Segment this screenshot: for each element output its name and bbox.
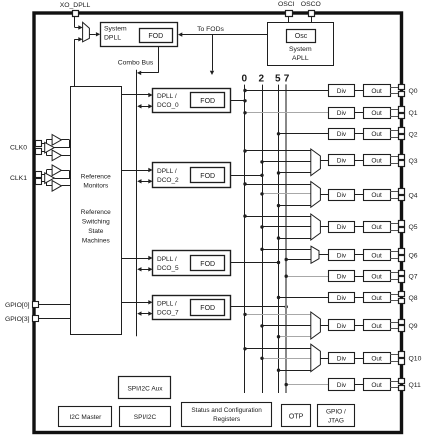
wire bus to Q4 mux input — [262, 193, 311, 195]
buffer CLK1 A — [52, 165, 61, 176]
pin Q9 square P — [399, 320, 405, 325]
pin Q6 square P — [399, 249, 405, 255]
wire bus to Q5 mux input — [279, 238, 311, 240]
svg-text:State: State — [88, 228, 104, 235]
svg-text:Q8: Q8 — [409, 295, 418, 302]
output driver Out Q7 — [364, 271, 391, 282]
wire bus line 7 — [285, 84, 287, 393]
divider Div Q11 — [329, 379, 355, 391]
FOD box in DPLL/DCO_7 — [191, 300, 225, 316]
divider Div Q5 — [329, 222, 355, 233]
wire To FODs down arrow — [212, 35, 214, 71]
divider Div Q8 — [329, 293, 355, 303]
wire bus to Q3 mux input — [262, 161, 311, 163]
wire Out to pins Q5 — [390, 223, 399, 225]
svg-text:Out: Out — [371, 158, 382, 165]
pin Q10 square N — [399, 359, 405, 365]
wire XO_DPLL to mux — [74, 17, 76, 28]
wire Q5 mux to divider — [320, 226, 328, 228]
pin OSCI square — [286, 11, 293, 17]
wire Div to Out Q10 — [355, 358, 363, 360]
svg-text:Q10: Q10 — [409, 356, 422, 363]
wire CLK1 pin feeds — [41, 174, 46, 176]
svg-text:APLL: APLL — [292, 55, 309, 62]
wire bus to Q9 mux input — [279, 336, 311, 338]
svg-text:Out: Out — [371, 88, 382, 95]
wire bus line 2 — [262, 85, 264, 393]
svg-text:Q4: Q4 — [409, 192, 418, 199]
svg-text:Div: Div — [337, 355, 347, 362]
pin Q2 square N — [399, 135, 405, 140]
output driver Out Q11 — [364, 379, 391, 391]
wire bus line 5 — [278, 85, 280, 393]
svg-text:Div: Div — [337, 274, 347, 281]
buffer CLK1 C — [52, 181, 61, 192]
pin CLK1 square P — [36, 172, 42, 178]
pin Q8 square N — [399, 299, 405, 304]
pin GPIO[3] square — [33, 316, 39, 322]
svg-text:Q11: Q11 — [409, 382, 422, 389]
block DPLL/DCO_5 — [153, 251, 231, 276]
block SPI/I2C — [120, 407, 171, 427]
wire Div to Out Q0 — [355, 90, 363, 92]
wire bus to Q1 divider — [245, 112, 328, 114]
wire Div to Out Q4 — [355, 194, 363, 196]
svg-text:DPLL /: DPLL / — [157, 93, 177, 100]
svg-text:5: 5 — [275, 74, 281, 85]
wire mux to System DPLL — [89, 34, 95, 36]
svg-text:GPIO[0]: GPIO[0] — [5, 302, 30, 309]
pin Q4 square N — [399, 196, 405, 201]
svg-text:SPI/I2C: SPI/I2C — [134, 414, 157, 421]
svg-text:Q7: Q7 — [409, 274, 418, 281]
wire bus to Q9 mux input — [245, 314, 311, 316]
svg-text:Q3: Q3 — [409, 158, 418, 165]
svg-text:7: 7 — [284, 74, 290, 85]
buffer CLK0 C — [52, 150, 61, 161]
wire bus to Q5 mux input — [245, 216, 311, 218]
buffer CLK0 B — [45, 142, 55, 153]
svg-text:System: System — [289, 46, 312, 53]
pin Q3 square P — [399, 155, 405, 160]
svg-text:GPIO /: GPIO / — [326, 408, 346, 415]
svg-text:JTAG: JTAG — [328, 417, 344, 424]
svg-text:DCO_5: DCO_5 — [157, 265, 179, 272]
wire bus to Q3 mux input — [279, 172, 311, 174]
pin XO_DPLL square — [73, 11, 79, 17]
block System APLL — [268, 23, 334, 66]
wire CLK1 buffers to monitors — [61, 170, 69, 172]
svg-text:Q5: Q5 — [409, 224, 418, 231]
svg-text:Div: Div — [337, 158, 347, 165]
svg-text:Out: Out — [371, 355, 382, 362]
pin Q8 square P — [399, 292, 405, 297]
wire Out to pins Q11 — [390, 381, 399, 383]
wire bus to Q4 mux input — [245, 184, 311, 186]
pin Q4 square P — [399, 189, 405, 195]
pin Q0 square P — [399, 85, 405, 90]
pin Q10 square P — [399, 352, 405, 358]
mux Q6 — [311, 246, 319, 263]
FOD box in DPLL/DCO_2 — [191, 168, 225, 183]
FOD box in DPLL/DCO_0 — [191, 93, 225, 108]
svg-text:Div: Div — [337, 131, 347, 138]
wire Div to Out Q3 — [355, 160, 363, 162]
wire Div to Out Q8 — [355, 297, 363, 299]
divider Div Q7 — [329, 271, 355, 282]
pin Q11 square N — [399, 386, 405, 391]
wire Out to pins Q6 — [390, 251, 399, 253]
wire bus to Q4 mux input — [279, 205, 311, 207]
output driver Out Q2 — [364, 129, 391, 140]
svg-text:FOD: FOD — [200, 261, 215, 268]
svg-text:DCO_7: DCO_7 — [157, 309, 179, 316]
output driver Out Q5 — [364, 222, 391, 233]
wire Q6 mux to divider — [319, 254, 328, 256]
block I2C Master — [59, 407, 112, 427]
wire DPLL/DCO_5 output — [230, 262, 278, 264]
pin Q9 square N — [399, 326, 405, 332]
block System DPLL — [101, 23, 178, 47]
svg-text:Registers: Registers — [213, 416, 240, 423]
wire bus to Q10 mux input — [245, 348, 311, 350]
divider Div Q4 — [329, 190, 355, 201]
divider Div Q10 — [329, 353, 355, 364]
divider Div Q6 — [329, 250, 355, 261]
mux Q5 — [311, 214, 321, 240]
block Reference Monitors — [71, 87, 122, 335]
pin Q5 square N — [399, 228, 405, 233]
svg-text:Out: Out — [371, 224, 382, 231]
svg-text:DPLL: DPLL — [104, 35, 121, 42]
wire Out to pins Q4 — [390, 191, 399, 193]
pin Q6 square N — [399, 256, 405, 262]
svg-text:Div: Div — [337, 295, 347, 302]
svg-text:DPLL /: DPLL / — [157, 300, 177, 307]
svg-text:Reference: Reference — [81, 209, 111, 216]
svg-text:Div: Div — [337, 110, 347, 117]
pin Q7 square P — [399, 271, 405, 276]
wire reference to mux — [74, 39, 76, 87]
wire Q9 mux to divider — [320, 325, 328, 327]
pin GPIO[0] square — [33, 302, 39, 308]
wire bus to Q10 mux input — [262, 358, 311, 360]
wire To FODs — [182, 34, 268, 36]
wire bus to Q2 divider — [279, 133, 329, 135]
svg-text:Out: Out — [371, 252, 382, 259]
svg-text:OTP: OTP — [289, 412, 304, 421]
svg-text:DCO_2: DCO_2 — [157, 177, 179, 184]
svg-text:DPLL /: DPLL / — [157, 168, 177, 175]
svg-text:Out: Out — [371, 295, 382, 302]
wire Div to Out Q7 — [355, 276, 363, 278]
wire OSCO stub — [311, 17, 313, 23]
wire bus to Q10 mux input — [279, 370, 311, 372]
Osc box — [287, 30, 316, 43]
buffer CLK1 B — [45, 173, 55, 184]
wire bus to Q6 mux input — [262, 249, 311, 251]
svg-text:OSCO: OSCO — [301, 1, 321, 8]
svg-text:Out: Out — [371, 382, 382, 389]
svg-text:Div: Div — [337, 224, 347, 231]
wire Out to pins Q3 — [390, 156, 399, 158]
mux Q3 — [311, 149, 321, 176]
svg-text:CLK1: CLK1 — [10, 175, 27, 182]
block GPIO/JTAG — [318, 405, 355, 427]
output driver Out Q6 — [364, 250, 391, 261]
svg-text:To FODs: To FODs — [197, 26, 224, 33]
svg-text:FOD: FOD — [200, 98, 215, 105]
mux Q10 — [311, 344, 321, 371]
pin CLK1 square N — [36, 179, 42, 185]
mux Q4 — [311, 182, 321, 208]
divider Div Q3 — [329, 155, 355, 166]
block OTP — [282, 405, 311, 427]
block DPLL/DCO_2 — [153, 163, 231, 188]
divider Div Q2 — [329, 129, 355, 140]
output driver Out Q4 — [364, 190, 391, 201]
wire Out to pins Q1 — [390, 109, 399, 111]
pin Q3 square N — [399, 161, 405, 167]
divider Div Q9 — [329, 320, 355, 331]
wire monitors to DPLL/DCO_7 — [121, 302, 148, 304]
wire combo bus from System DPLL — [158, 47, 160, 73]
wire bus to Q6 mux input — [286, 259, 311, 261]
pin Q1 square P — [399, 107, 405, 113]
svg-text:DPLL /: DPLL / — [157, 256, 177, 263]
output driver Out Q1 — [364, 108, 391, 119]
wire Div to Out Q6 — [355, 254, 363, 256]
wire Div to Out Q9 — [355, 325, 363, 327]
wire combo bus vertical — [136, 70, 138, 337]
wire Q3 mux to divider — [320, 160, 328, 162]
wire bus to Q5 mux input — [262, 226, 311, 228]
svg-text:Machines: Machines — [82, 238, 111, 245]
wire bus to Q8 divider — [279, 297, 329, 299]
output driver Out Q8 — [364, 293, 391, 303]
pin Q1 square N — [399, 114, 405, 119]
wire OSCI stub — [288, 17, 290, 23]
mux system DPLL input — [83, 22, 90, 42]
wire Out to pins Q7 — [390, 272, 399, 274]
wire Out to pins Q10 — [390, 354, 399, 356]
wire bus to Q7 divider — [286, 276, 328, 278]
svg-text:SPI/I2C Aux: SPI/I2C Aux — [127, 385, 163, 392]
wire Out to pins Q8 — [390, 294, 399, 296]
svg-text:Combo Bus: Combo Bus — [118, 60, 154, 67]
pin Q0 square N — [399, 92, 405, 97]
output driver Out Q9 — [364, 320, 391, 331]
wire DPLL/DCO_7 output — [230, 306, 286, 308]
wire combo bus to DPLL/DCO_2 — [141, 181, 149, 183]
buffer CLK0 A — [52, 135, 61, 146]
svg-text:XO_DPLL: XO_DPLL — [60, 2, 91, 9]
wire combo bus to DPLL/DCO_7 — [141, 313, 149, 315]
wire Q4 mux to divider — [320, 194, 328, 196]
svg-text:Q2: Q2 — [409, 131, 418, 138]
wire GPIO[3] — [39, 318, 71, 320]
FOD box in DPLL/DCO_5 — [191, 256, 225, 271]
svg-text:GPIO[3]: GPIO[3] — [5, 316, 30, 323]
wire DPLL/DCO_2 output — [230, 175, 262, 177]
output driver Out Q3 — [364, 155, 391, 166]
svg-text:Q6: Q6 — [409, 253, 418, 260]
svg-text:0: 0 — [242, 74, 248, 85]
wire CLK0 pin feeds — [41, 143, 46, 145]
wire monitors to DPLL/DCO_0 — [121, 94, 148, 96]
svg-text:OSCI: OSCI — [278, 1, 295, 8]
svg-text:CLK0: CLK0 — [10, 145, 27, 152]
block DPLL/DCO_7 — [153, 296, 231, 320]
pin Q5 square P — [399, 221, 405, 227]
block Status and Configuration Registers — [182, 403, 272, 427]
output driver Out Q10 — [364, 353, 391, 364]
svg-text:Q0: Q0 — [409, 88, 418, 95]
wire Div to Out Q1 — [355, 112, 363, 114]
wire bus to Q0 divider — [245, 90, 328, 92]
wire Out to pins Q9 — [390, 322, 399, 324]
pin CLK0 square P — [36, 141, 42, 147]
pin CLK0 square N — [36, 149, 42, 155]
output driver Out Q0 — [364, 85, 391, 97]
FOD box in System DPLL — [140, 29, 173, 43]
block SPI/I2C Aux — [119, 377, 171, 399]
svg-text:Reference: Reference — [81, 173, 111, 180]
svg-text:Out: Out — [371, 274, 382, 281]
pin Q2 square P — [399, 128, 405, 134]
wire bus to Q3 mux input — [245, 150, 311, 152]
svg-text:System: System — [104, 26, 127, 33]
wire GPIO[0] — [39, 304, 71, 306]
svg-text:FOD: FOD — [200, 173, 215, 180]
svg-text:Div: Div — [337, 382, 347, 389]
wire bus line 0 — [244, 85, 246, 393]
svg-text:Q9: Q9 — [409, 323, 418, 330]
svg-text:Status and Configuration: Status and Configuration — [191, 407, 262, 414]
svg-text:Switching: Switching — [82, 219, 110, 226]
block DPLL/DCO_0 — [153, 89, 231, 113]
svg-text:Monitors: Monitors — [83, 183, 109, 190]
divider Div Q1 — [329, 108, 355, 119]
wire bus to Q9 mux input — [262, 325, 311, 327]
wire Out to pins Q2 — [390, 130, 399, 132]
wire bus to Q11 divider — [286, 384, 328, 386]
svg-text:Div: Div — [337, 252, 347, 259]
svg-text:Out: Out — [371, 110, 382, 117]
wire monitors to DPLL/DCO_2 — [121, 170, 148, 172]
pin Q11 square P — [399, 379, 405, 384]
svg-text:Div: Div — [337, 192, 347, 199]
wire combo bus to DPLL/DCO_0 — [141, 106, 149, 108]
wire monitors to DPLL/DCO_5 — [121, 258, 148, 260]
wire combo bus to DPLL/DCO_5 — [141, 269, 149, 271]
svg-text:FOD: FOD — [148, 33, 163, 40]
wire Q10 mux to divider — [320, 358, 328, 360]
svg-text:DCO_0: DCO_0 — [157, 102, 179, 109]
svg-text:Out: Out — [371, 323, 382, 330]
wire DPLL/DCO_0 output — [230, 100, 245, 102]
svg-text:Q1: Q1 — [409, 110, 418, 117]
svg-text:Osc: Osc — [295, 33, 308, 40]
wire CLK0 buffers to monitors — [61, 139, 69, 141]
svg-text:Div: Div — [337, 323, 347, 330]
wire Out to pins Q0 — [390, 87, 399, 89]
svg-text:FOD: FOD — [200, 305, 215, 312]
svg-text:Out: Out — [371, 131, 382, 138]
svg-text:2: 2 — [259, 74, 265, 85]
mux Q9 — [311, 312, 321, 339]
svg-text:Out: Out — [371, 192, 382, 199]
svg-text:I2C Master: I2C Master — [70, 414, 103, 421]
wire Div to Out Q5 — [355, 226, 363, 228]
pin Q7 square N — [399, 277, 405, 283]
svg-text:Div: Div — [337, 88, 347, 95]
wire Div to Out Q11 — [355, 384, 363, 386]
pin OSCO square — [309, 11, 315, 17]
divider Div Q0 — [329, 85, 355, 97]
wire Div to Out Q2 — [355, 133, 363, 135]
